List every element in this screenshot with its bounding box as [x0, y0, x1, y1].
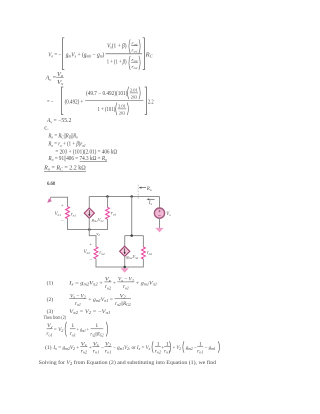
node junction dot mid top rail [130, 195, 133, 198]
EQ1: symbolic Vo equation [48, 38, 153, 70]
lines block [43, 118, 117, 172]
svg-text:+: + [61, 203, 64, 208]
svg-text:= 203 + (101)(2.01) = 406 kΩ: = 203 + (101)(2.01) = 406 kΩ [55, 149, 117, 156]
svg-text:+ V2: + V2 [173, 345, 181, 351]
svg-text:+: + [113, 280, 116, 286]
svg-text:− gm1: − gm1 [205, 345, 216, 351]
svg-text:Vx: Vx [47, 323, 53, 329]
svg-text:ro1: ro1 [93, 349, 99, 355]
node junction dot r_o1 top [106, 195, 109, 198]
wire node 2 stub down [88, 230, 90, 237]
svg-text:− gm1V2, or Ix = Vx: − gm1V2, or Ix = Vx [113, 345, 150, 351]
svg-text:1 + (1 + β): 1 + (1 + β) [107, 59, 127, 66]
svg-text:c.: c. [44, 126, 49, 132]
wire from g_m1 source down to bottom rail [88, 218, 90, 230]
svg-text:rπ2: rπ2 [99, 251, 105, 256]
svg-text:203: 203 [119, 110, 125, 115]
ground below V_x [155, 228, 163, 233]
svg-text:Vπ2 = V2 = −Vπ1: Vπ2 = V2 = −Vπ1 [69, 309, 110, 315]
svg-text:ro2: ro2 [155, 349, 161, 355]
svg-text:(1): (1) [47, 279, 54, 286]
EQ3: numeric [47, 87, 154, 116]
svg-text:ro1: ro1 [46, 331, 52, 337]
wire from top rail down to g_m1 source [88, 197, 90, 209]
svg-text:2.01: 2.01 [118, 104, 126, 109]
svg-text:Vπ1: Vπ1 [55, 212, 62, 217]
svg-text:ro1: ro1 [105, 349, 111, 355]
svg-text:ro2: ro2 [105, 284, 111, 290]
wire node 2 horizontal [89, 235, 96, 237]
wire input top horizontal [50, 196, 67, 198]
wire from top rail down to stage 2 [131, 197, 133, 236]
svg-text:= −: = − [47, 99, 54, 105]
wire lower top rail [125, 235, 144, 237]
wire below V_x [159, 218, 161, 228]
equations 1-3 [44, 277, 158, 338]
svg-text:rπ2||RG2: rπ2||RG2 [90, 332, 103, 338]
svg-text:Vπ2: Vπ2 [84, 250, 91, 255]
node junction dot lower top rail [130, 234, 133, 237]
svg-text:Av =: Av = [45, 76, 57, 82]
svg-text:1: 1 [95, 323, 98, 329]
svg-text:ro1: ro1 [197, 349, 203, 355]
svg-text:Vo = −: Vo = − [48, 52, 62, 58]
svg-text:+ gm1Vπ1: + gm1Vπ1 [136, 280, 157, 286]
problem number [47, 181, 55, 187]
EQ2: Av = Vo/Vs [45, 72, 64, 86]
R_o measurement arrow [139, 187, 146, 189]
wire down to r_pi2 [95, 236, 97, 247]
wire below r_pi2 [95, 259, 97, 268]
wire from g_m2 source down [124, 256, 126, 267]
svg-text:1 + (101): 1 + (101) [98, 106, 116, 113]
svg-text:RC: RC [145, 52, 153, 58]
wire input branch down to r_pi1 [67, 197, 69, 207]
dashed reference line for R_o [137, 185, 139, 200]
svg-text:+: + [89, 345, 92, 351]
svg-text:(2): (2) [47, 296, 54, 303]
svg-text:(3): (3) [47, 308, 54, 315]
svg-text:Solving for V2 from Equation (: Solving for V2 from Equation (2) and sub… [39, 359, 217, 366]
svg-text:−: − [101, 345, 104, 351]
dependent source g_m1·V_pi1 (diamond) [84, 208, 94, 218]
svg-text:−: − [61, 218, 64, 223]
svg-text:gmVs + (gmb − gm): gmVs + (gmb − gm) [66, 51, 105, 58]
wire below r_pi1 [67, 219, 69, 230]
node junction dot on bottom rail [88, 228, 91, 231]
svg-text:ro1: ro1 [164, 349, 170, 355]
svg-text:Ix = gm2V2 +: Ix = gm2V2 + [52, 345, 79, 351]
resistor r_pi1 [66, 207, 70, 219]
svg-text:Then from (2): Then from (2) [44, 316, 67, 321]
svg-text:ro1: ro1 [75, 301, 81, 307]
svg-text:Av = −55.2: Av = −55.2 [46, 118, 71, 124]
svg-text:Ro = RC||RD||Ro: Ro = RC||RD||Ro [48, 133, 78, 139]
dependent source g_m2·V_pi2 (diamond) [120, 246, 130, 256]
wire below r_o2 [142, 259, 144, 268]
wire lower bottom rail [96, 266, 143, 268]
svg-text:rπ1: rπ1 [71, 213, 77, 218]
svg-text:(0.492) +: (0.492) + [65, 98, 84, 105]
svg-text:Vx: Vx [166, 212, 171, 217]
input arrow (signal direction into stage 1) [47, 197, 52, 203]
circuit [47, 185, 171, 273]
test voltage source V_x (circle) [154, 208, 164, 218]
svg-text:ro1: ro1 [111, 211, 117, 216]
wire down to r_o2 [142, 236, 144, 248]
svg-text:+ gm1Vπ1 =: + gm1Vπ1 = [88, 297, 113, 303]
svg-text:Vs: Vs [57, 80, 64, 86]
svg-text:203: 203 [131, 94, 137, 99]
svg-text:−: − [89, 257, 92, 262]
svg-text:Ix = gm2Vπ2 +: Ix = gm2Vπ2 + [68, 280, 103, 286]
svg-text:Ro = ro + (1 + β)rπ1: Ro = ro + (1 + β)rπ1 [48, 141, 86, 148]
svg-text:ro1: ro1 [123, 284, 129, 290]
svg-text:Vs(1 + β): Vs(1 + β) [107, 42, 127, 49]
svg-text:ro1: ro1 [70, 331, 76, 337]
resistor r_o2 [141, 247, 145, 259]
svg-text:= V2: = V2 [54, 327, 64, 333]
svg-text:2.01: 2.01 [130, 88, 138, 93]
svg-text:rπ2||RG2: rπ2||RG2 [115, 301, 131, 307]
svg-text:Ix: Ix [148, 201, 153, 206]
ground below lower bottom rail [121, 268, 129, 273]
wire down to g_m2 source [124, 236, 126, 247]
svg-text:gm2 −: gm2 − [186, 345, 197, 351]
wire upper top rail [89, 196, 159, 198]
I_x current arrow [147, 198, 155, 200]
svg-text:+ gm1 +: + gm1 + [77, 327, 89, 333]
svg-text:+: + [89, 241, 92, 246]
svg-text:(1): (1) [45, 344, 52, 351]
resistor r_o1 [106, 207, 110, 219]
svg-text:Ro: Ro [146, 187, 152, 192]
wire upper bottom rail [67, 229, 108, 231]
wire below r_o1 [107, 219, 109, 230]
svg-text:Ro = RC = 2.2 kΩ: Ro = RC = 2.2 kΩ [43, 166, 86, 172]
resistor r_pi2 [94, 247, 98, 259]
svg-text:(49.7 − 0.492)(101): (49.7 − 0.492)(101) [86, 90, 127, 97]
bottom lines [39, 341, 220, 366]
node junction dot lower bottom rail [123, 266, 126, 269]
svg-text:ro2: ro2 [147, 251, 153, 256]
wire down to test source V_x [159, 197, 161, 209]
svg-text:1: 1 [71, 323, 74, 329]
wire from top rail down to r_o1 [107, 197, 109, 208]
svg-text:2.2: 2.2 [148, 99, 154, 105]
svg-text:6.68: 6.68 [47, 181, 55, 187]
svg-text:ro2: ro2 [81, 349, 87, 355]
